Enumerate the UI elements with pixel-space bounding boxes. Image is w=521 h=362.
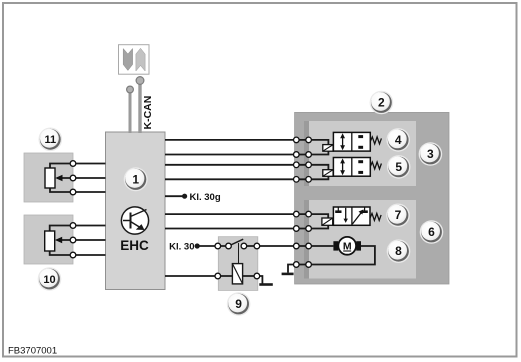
callout 4: [386, 128, 410, 152]
relay contact pin left: [215, 243, 221, 249]
relay box 9: [218, 237, 257, 291]
svg-text:Kl. 30: Kl. 30: [169, 241, 194, 252]
svg-text:K-CAN: K-CAN: [142, 96, 154, 130]
svg-text:7: 7: [395, 208, 402, 222]
wire ECU to valve 7 row 1: [165, 214, 328, 218]
valve unit 3 (inner box, valves 4+5): [309, 121, 416, 186]
solenoid valve 5: [333, 158, 370, 177]
wire relay contact to motor +: [244, 245, 334, 247]
callout 10: [38, 267, 62, 291]
svg-text:8: 8: [395, 244, 402, 258]
height sensor box 10: [24, 215, 73, 264]
wire ECU to valve 4 row 1: [165, 140, 328, 145]
height sensor box 11: [24, 153, 73, 202]
junction dot Kl. 30g: [182, 194, 187, 199]
potentiometer of sensor 11: [45, 161, 106, 195]
wire relay coil to ground: [243, 276, 263, 284]
motor M 8: [333, 237, 361, 255]
callout 9: [227, 292, 251, 316]
bus icon box: [119, 45, 150, 74]
compressor unit 6 (inner box, valve 7 + motor 8): [309, 200, 416, 279]
transistor symbol inside ECU: [121, 207, 148, 234]
svg-text:3: 3: [427, 147, 434, 161]
svg-text:10: 10: [43, 274, 55, 286]
svg-text:2: 2: [378, 95, 385, 109]
solenoid valve 7: [333, 207, 370, 225]
wire ECU to valve 4 row 2: [165, 151, 328, 154]
svg-text:9: 9: [235, 297, 242, 311]
callout 5: [387, 155, 411, 179]
wire ECU to relay coil: [165, 275, 232, 277]
ground at compressor: [288, 265, 296, 273]
svg-text:1: 1: [132, 173, 139, 187]
svg-text:5: 5: [395, 160, 402, 174]
callout 6: [420, 220, 444, 244]
K-CAN bus wire right: [136, 77, 144, 133]
spring of valve 5: [370, 162, 381, 169]
callout 1: [124, 167, 148, 191]
relay actuating link: [238, 243, 240, 264]
solenoid valve 4: [333, 132, 370, 151]
wire ECU to valve 5 row 3: [165, 165, 328, 170]
ground at relay: [259, 283, 273, 286]
spring of valve 4: [370, 137, 381, 144]
svg-text:6: 6: [428, 225, 435, 239]
solenoid actuator of valve 7: [322, 218, 333, 225]
wire ECU to valve 7 row 2: [165, 225, 328, 228]
callout 8: [387, 239, 411, 263]
K-CAN bus wire left: [127, 86, 134, 133]
relay coil pins: [215, 273, 221, 279]
wire Kl.30 to relay contact: [197, 245, 228, 247]
svg-text:4: 4: [395, 133, 402, 147]
potentiometer of sensor 10: [45, 223, 106, 258]
stub Kl. 30g: [165, 195, 185, 197]
svg-text:FB3707001: FB3707001: [8, 346, 57, 357]
ECU block U1 (EHC control unit): [106, 132, 166, 290]
svg-text:11: 11: [44, 134, 56, 146]
svg-text:EHC: EHC: [120, 238, 149, 253]
motor 8 return wire to ground pin: [296, 246, 375, 265]
callout 3: [419, 142, 443, 166]
callout 11: [39, 128, 63, 152]
up arrow glyph: [136, 48, 145, 71]
shadow stripe left of unit 6: [304, 200, 310, 279]
callout 7: [386, 204, 410, 228]
spring of valve 7: [370, 213, 381, 220]
relay switch blade: [229, 239, 244, 246]
solenoid actuator of valve 5: [323, 170, 333, 177]
valve block assembly 2 (outer air-supply unit box): [295, 112, 449, 284]
solenoid actuator of valve 4: [323, 145, 333, 152]
svg-text:Kl. 30g: Kl. 30g: [190, 192, 221, 203]
wire ECU to valve 5 row 4: [165, 176, 328, 179]
connector pins valve block rows: [294, 137, 312, 267]
down arrow glyph: [123, 49, 132, 71]
shadow stripe left of valve unit 3: [304, 121, 310, 186]
callout 2: [370, 91, 394, 115]
relay coil K1: [232, 264, 242, 284]
junction dot Kl. 30: [195, 243, 200, 248]
